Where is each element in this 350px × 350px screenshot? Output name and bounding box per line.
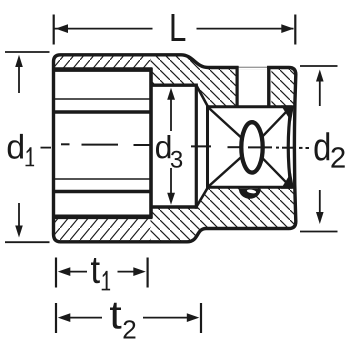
d2 arrow down	[316, 212, 324, 224]
hex inner thin line upper	[52, 98, 152, 100]
corner blob BR	[281, 173, 294, 189]
d3 arrow down	[167, 193, 175, 205]
d3 bore top line	[151, 83, 198, 86]
hatch top-right band	[271, 68, 295, 107]
d3 bore bottom line	[151, 205, 198, 209]
cross-hole top edge mask	[239, 52, 268, 69]
hex bore end face	[149, 68, 153, 219]
square drive top line	[206, 105, 293, 108]
hex inner thick line lower	[52, 190, 152, 193]
ball detent bump	[239, 189, 261, 199]
t1 arrow left	[58, 267, 71, 276]
d1 leader	[41, 147, 52, 149]
t2 tick left	[55, 303, 57, 333]
hex bore top line	[52, 67, 152, 72]
t2 arrow right	[187, 313, 200, 322]
cross-hole left wall	[236, 66, 239, 107]
square drive X diagonal BL	[208, 147, 253, 187]
hex bore bottom line	[52, 215, 152, 220]
label t1	[91, 258, 100, 283]
dimension L tick right	[294, 15, 296, 45]
square drive X diagonal TL	[208, 107, 253, 148]
d1 arrow up	[15, 55, 23, 67]
cross-hole right wall	[267, 66, 270, 107]
dimension L line	[55, 28, 294, 30]
hatch bottom-right region	[151, 187, 296, 242]
chamfer bottom	[196, 187, 208, 207]
corner blob TR	[281, 105, 294, 121]
chamfer top	[196, 85, 208, 107]
square drive bottom line	[206, 186, 293, 189]
t2 arrow left	[58, 313, 71, 322]
d1 arrow down	[15, 226, 23, 238]
t1 tick left	[55, 258, 57, 288]
hatch top-left band	[54, 55, 151, 70]
dimension L tick left	[53, 15, 55, 45]
outer profile	[54, 55, 296, 242]
hex inner thin line lower	[52, 178, 152, 180]
d3 arrow up	[167, 88, 175, 100]
label d1	[8, 134, 23, 159]
d3 bore end face	[195, 84, 198, 209]
label d3	[156, 135, 170, 159]
hatch neck top region	[151, 55, 236, 107]
hex inner thick line upper	[52, 110, 152, 113]
square drive right arc	[288, 107, 291, 188]
dimension L arrow right	[281, 24, 294, 33]
square drive X diagonal TR	[252, 107, 291, 148]
d1 extension bottom	[5, 241, 50, 243]
d2 arrow up	[316, 70, 324, 82]
square drive left edge	[206, 105, 209, 188]
label L	[172, 14, 186, 41]
d1 extension top	[5, 51, 50, 53]
cross-hole faint top	[239, 66, 268, 68]
centerline	[61, 144, 309, 148]
square drive X diagonal BR	[252, 147, 291, 187]
t2 tick right	[200, 303, 202, 333]
label d2	[314, 132, 329, 160]
t1 tick right	[147, 258, 149, 288]
dimension L arrow left	[56, 24, 69, 33]
ball highlight	[247, 189, 257, 194]
d2 extension bottom	[300, 231, 338, 233]
d2 extension top	[300, 65, 338, 67]
label t2	[110, 303, 121, 329]
hatch bottom-left band	[54, 217, 151, 242]
t1 arrow right	[133, 267, 146, 276]
ellipse (drive hole)	[241, 122, 262, 172]
